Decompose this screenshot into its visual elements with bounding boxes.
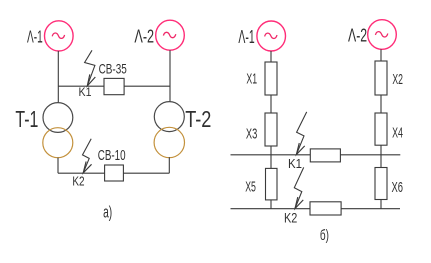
generator Л-1 equivalent xyxy=(257,21,286,51)
reactance on bus 1 xyxy=(310,149,340,162)
svg-text:CB-35: CB-35 xyxy=(99,61,127,77)
reactance X3 xyxy=(265,113,277,146)
reactance X2 xyxy=(375,61,387,95)
svg-text:K1: K1 xyxy=(288,156,302,171)
wire Л-2 to X2 xyxy=(380,49,382,61)
reactance on bus 2 xyxy=(310,202,341,215)
svg-text:T-1: T-1 xyxy=(15,106,38,132)
svg-text:K2: K2 xyxy=(72,174,84,188)
fault K1 (lightning arrow) xyxy=(85,50,95,86)
svg-text:Λ-1: Λ-1 xyxy=(27,26,43,46)
fault K2 (lightning arrow) xyxy=(294,167,303,208)
reactance X6 xyxy=(375,168,387,200)
wire horizontal tie (right segment) xyxy=(124,85,170,87)
circuit breaker CB-10 xyxy=(105,165,124,181)
generator Л-2 xyxy=(156,20,185,50)
fault K2 (lightning arrow) xyxy=(83,139,92,173)
bus 1 (left segment) xyxy=(231,154,311,156)
wire X6 to bus 2 xyxy=(380,200,382,209)
wire bottom left vertical xyxy=(57,158,59,174)
svg-text:X4: X4 xyxy=(392,125,403,142)
svg-text:T-2: T-2 xyxy=(185,106,211,132)
wire bottom horizontal (right segment) xyxy=(123,172,169,174)
svg-text:б): б) xyxy=(320,227,329,244)
svg-text:X6: X6 xyxy=(392,179,404,196)
bus 2 (left segment) xyxy=(231,208,311,210)
bus 2 (right segment) xyxy=(341,208,400,210)
svg-text:Λ-2: Λ-2 xyxy=(134,26,154,47)
wire X4 through bus 1 to X6 xyxy=(380,145,382,167)
svg-text:Λ-1: Λ-1 xyxy=(238,26,254,47)
wire bottom right vertical xyxy=(168,157,170,173)
wire X2 to X4 xyxy=(380,95,382,113)
wire bottom horizontal (left segment) xyxy=(58,172,105,174)
svg-text:X2: X2 xyxy=(392,71,403,88)
reactance X5 xyxy=(266,168,278,200)
generator Л-1 xyxy=(45,21,74,51)
svg-text:K1: K1 xyxy=(79,85,92,99)
svg-text:a): a) xyxy=(103,204,112,222)
svg-text:CB-10: CB-10 xyxy=(98,148,126,164)
wire Л-1 to X1 xyxy=(270,51,272,62)
reactance X4 xyxy=(375,113,387,145)
wire X5 to bus 2 xyxy=(270,200,272,209)
wire X3 through bus 1 to X5 xyxy=(270,146,272,168)
wire left vertical (Л-1 to T-1) xyxy=(57,51,59,103)
bus 1 (right segment) xyxy=(340,154,400,156)
svg-text:X1: X1 xyxy=(246,71,257,88)
wire horizontal tie (left segment) xyxy=(58,85,104,87)
reactance X1 xyxy=(265,62,277,95)
svg-text:X5: X5 xyxy=(245,179,256,196)
transformer T-1 xyxy=(43,103,73,158)
transformer T-2 xyxy=(154,102,184,158)
svg-text:K2: K2 xyxy=(284,211,297,226)
svg-text:X3: X3 xyxy=(246,125,257,142)
wire X1 to X3 xyxy=(270,95,272,113)
circuit breaker CB-35 xyxy=(104,78,124,94)
generator Л-2 equivalent xyxy=(368,20,397,50)
svg-text:Λ-2: Λ-2 xyxy=(348,26,367,46)
wire right vertical (Л-2 to T-2) xyxy=(169,50,171,101)
fault K1 (lightning arrow) xyxy=(296,112,306,155)
